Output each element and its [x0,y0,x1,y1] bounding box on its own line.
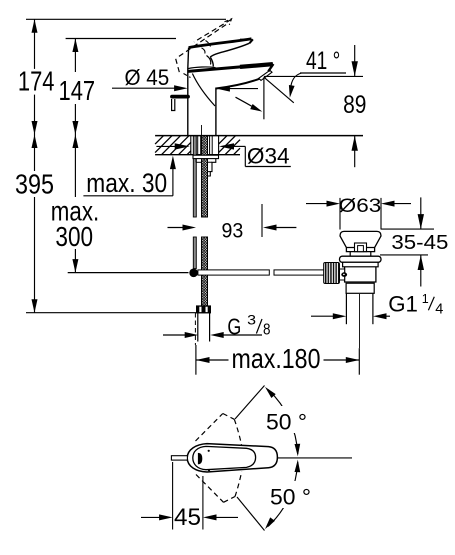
svg-text:3: 3 [247,312,256,328]
svg-text:4: 4 [435,302,443,318]
svg-text:Ø34: Ø34 [247,143,290,168]
svg-text:45: 45 [174,505,201,531]
svg-text:max. 30: max. 30 [86,168,167,198]
svg-text:89: 89 [343,91,366,119]
svg-text:174: 174 [18,66,55,97]
svg-text:147: 147 [59,75,96,106]
svg-text:35-45: 35-45 [391,231,448,254]
svg-text:8: 8 [263,322,271,339]
svg-text:max.180: max.180 [232,343,321,374]
svg-text:Ø 45: Ø 45 [125,65,170,90]
svg-text:41 °: 41 ° [306,47,340,75]
svg-text:50 °: 50 ° [266,409,307,434]
svg-text:300: 300 [55,221,93,252]
svg-text:Ø63: Ø63 [339,195,382,217]
svg-text:50 °: 50 ° [270,484,311,509]
svg-text:395: 395 [15,168,54,199]
svg-text:1: 1 [422,292,429,306]
svg-text:G: G [227,314,241,340]
svg-text:G1: G1 [388,292,418,317]
svg-text:93: 93 [222,219,244,243]
